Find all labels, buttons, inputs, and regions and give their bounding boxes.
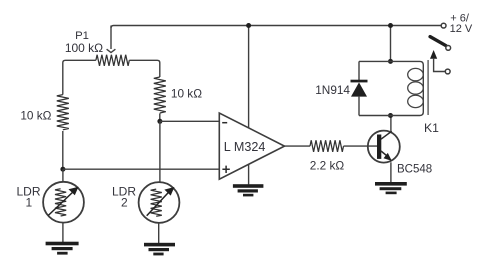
wire node A to op-amp non-inverting input (63, 168, 219, 170)
junction dot rail/V+ (246, 23, 251, 28)
wire relay box top (359, 60, 391, 62)
op-amp plus input mark (222, 166, 229, 173)
junction dot rail/relay (388, 23, 393, 28)
relay actuator arrow (430, 50, 437, 59)
wire P1 left to left branch (63, 60, 96, 94)
wire rail to relay branch (390, 26, 392, 62)
wire emitter down to ground (390, 162, 392, 182)
LDR1 photoresistor (43, 182, 84, 223)
wire LDR2 to ground (158, 223, 160, 243)
svg-text:1N914: 1N914 (315, 83, 350, 97)
resistor R3 2.2k zigzag (310, 140, 344, 152)
wire op-amp V+ pin from rail (248, 26, 250, 129)
wire op-amp output (285, 145, 311, 147)
junction dot relay box bottom (388, 113, 393, 118)
wire R2 bottom to node B (159, 113, 161, 121)
wiper arrowhead of P1 (107, 49, 116, 52)
wire node A down to LDR1 (62, 169, 64, 181)
junction dot relay box top (388, 59, 393, 64)
resistor R2 10k right zigzag (154, 77, 166, 113)
wire R1 bottom to node A (62, 131, 64, 169)
svg-text:100 kΩ: 100 kΩ (65, 41, 103, 55)
wire P1 right to right branch (129, 60, 160, 77)
node A junction dot (60, 167, 65, 172)
svg-text:12 V: 12 V (450, 23, 473, 35)
LDR2 photoresistor (139, 182, 180, 223)
supply terminal circle (441, 23, 446, 28)
resistor R1 10k left zigzag (57, 95, 69, 130)
wire actuator to contact B (434, 58, 446, 72)
op-amp minus input mark (222, 122, 227, 124)
transistor Q1 BC548 (368, 131, 400, 163)
wire node B down to LDR2 (159, 121, 161, 182)
relay contact blade (430, 37, 446, 46)
svg-text:1: 1 (25, 195, 32, 209)
svg-text:K1: K1 (424, 121, 439, 135)
wire op-amp V- pin to ground (248, 164, 250, 184)
op-amp U1 LM324 triangle (219, 113, 284, 179)
ground under transistor (375, 182, 407, 194)
wire R3 to transistor base (344, 145, 378, 147)
relay contact circle B (445, 69, 450, 74)
svg-text:10 kΩ: 10 kΩ (171, 87, 202, 101)
wire P1 wiper drop (110, 26, 112, 50)
ground under op-amp (233, 184, 264, 196)
wire LDR1 to ground (62, 223, 64, 242)
wire collector up to relay box (390, 116, 392, 132)
wire top supply rail (111, 26, 441, 29)
ground under LDR2 (144, 243, 175, 256)
wire node B to op-amp inverting input (160, 120, 219, 122)
relay frame bar (427, 60, 429, 115)
node B junction dot (157, 119, 162, 124)
relay contact circle A (446, 46, 451, 51)
relay K1 coil (391, 61, 424, 115)
svg-text:2: 2 (121, 195, 128, 209)
svg-text:10 kΩ: 10 kΩ (20, 108, 51, 122)
svg-text:BC548: BC548 (397, 163, 432, 175)
svg-text:L M324: L M324 (224, 140, 266, 154)
svg-text:2.2 kΩ: 2.2 kΩ (310, 159, 345, 173)
resistor P1 zigzag (96, 55, 129, 66)
ground under LDR1 (46, 242, 79, 255)
wire relay box bottom (359, 115, 391, 117)
diode D1 1N914 (351, 61, 368, 115)
